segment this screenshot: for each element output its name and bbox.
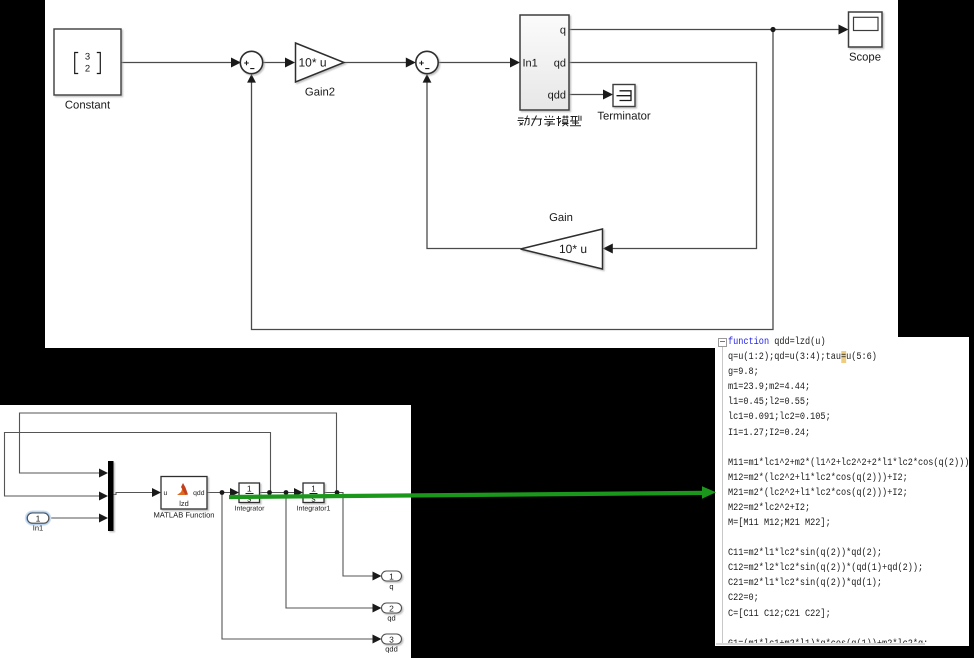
code line 6 [728,410,831,425]
integrator1 block [303,483,324,504]
wire gain2 to sum2 [344,62,407,64]
code line 13 [728,516,831,531]
wire matlab function to integrator [207,492,231,494]
sum block sum1 [240,51,262,73]
code line 4 [728,380,810,395]
code panel bottom edge line [716,643,925,645]
outport qdd oval [382,634,402,644]
wire sum2 to subsystem in1 [439,62,512,64]
junction dot after integrator b [284,490,289,495]
code line 1 [728,335,826,350]
arrowhead into subsystem [510,58,520,68]
code line 17 [728,576,882,591]
top simulink model panel [45,0,898,348]
wire constant to sum1 [121,62,232,64]
wire qdd to terminator [569,94,605,96]
bottom-left simulink model panel [0,405,411,658]
label 动力学模型 (CJK glyph strokes) [518,116,582,127]
arrowhead mux input1 [99,469,108,478]
wire qd tap to outport2 [286,493,374,609]
arrowhead into matlab function [152,488,161,497]
wire integrator to integrator1 [260,492,296,494]
code line 7 [728,426,810,441]
code line 3 [728,365,759,380]
junction dot q line [770,27,775,32]
junction dot after integrator1 [335,490,340,495]
gain block Gain2 [296,43,345,82]
outport q oval [382,571,402,581]
wire q output to scope [569,29,840,31]
code line 19 [728,607,831,622]
outport qd oval [382,603,402,613]
code line 10 [728,471,908,486]
arrowhead into outport3 [373,635,382,644]
wire feedback rect qd to mux input2 [5,433,271,497]
arrowhead into integrator1 [294,488,303,497]
subsystem block 动力学模型 [520,15,569,110]
wire integrator1 out [324,493,374,577]
scope block [849,12,883,47]
code line 21 partial [728,637,928,652]
matlab function block [161,477,207,510]
wire gain output to sum2 bottom [427,80,521,249]
junction dot after integrator a [267,490,272,495]
inport In1 oval [27,513,49,524]
arrowhead mux input2 [99,492,108,501]
arrowhead into outport2 [373,604,382,613]
arrowhead mux input3 [99,514,108,523]
code gutter line [722,347,723,643]
gain block Gain (feedback, pointing left) [521,229,603,269]
wire feedback rect q to mux input1 [20,413,337,493]
code line 11 [728,486,908,501]
matlab editor code panel [715,337,969,646]
wire qdd tap to outport3 [222,493,374,640]
arrowhead into sum1 bottom (pointing up) [247,74,256,83]
integrator block [239,483,260,504]
code line 9 [728,456,969,471]
arrowhead into sum2 [406,58,416,68]
arrowhead into sum2 bottom (pointing up) [423,74,432,83]
wire outer loop q to sum1 bottom [252,30,774,330]
arrowhead into sum1 [231,58,241,68]
wire sum1 to gain2 [263,62,286,64]
wire qd output feedback to gain [569,63,757,249]
code line 18 [728,591,759,606]
wire mux output to matlab function [114,493,154,495]
wire In1 to mux input3 [49,517,100,519]
code line 15 [728,546,882,561]
arrowhead into gain2 [285,58,295,68]
junction dot after matlab function [220,490,225,495]
arrowhead into gain (pointing left) [603,244,613,254]
arrowhead into integrator [230,488,239,497]
code line 2 [728,350,877,365]
matlab logo [177,487,186,495]
arrowhead into outport1 [373,572,382,581]
mux block [108,461,114,531]
sum block sum2 [416,51,438,73]
terminator block [613,85,635,107]
constant block [54,29,121,95]
code fold minus box [718,338,727,347]
code line 16 [728,561,923,576]
code line 12 [728,501,810,516]
code line 5 [728,395,810,410]
arrowhead into scope [839,25,849,35]
arrowhead into terminator [603,90,613,100]
